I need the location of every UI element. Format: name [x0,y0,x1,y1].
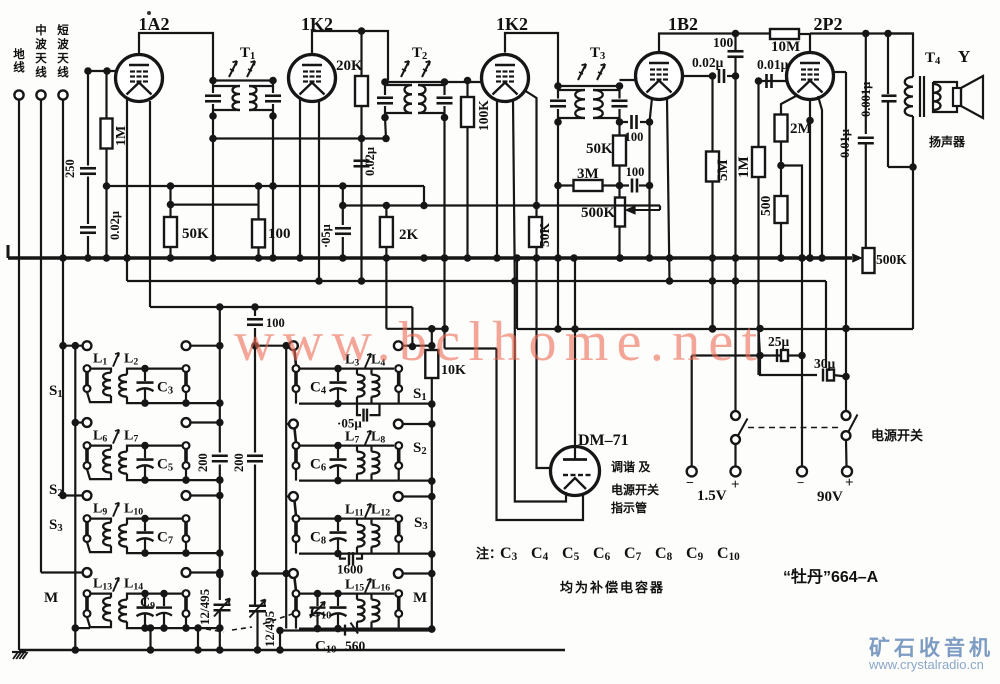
capacitor 200 no2 [247,453,263,465]
wire T2 left rail down [385,118,386,139]
wire DM71 left x536 [537,258,553,468]
link x150 bottom [149,628,151,650]
wire 3M line [558,184,629,186]
svg-text:指示管: 指示管 [611,500,647,515]
bus node x517 [513,254,521,262]
link x280 bottom [279,631,281,651]
node x760 y355 [756,352,764,360]
wire DM feed y348.5 [445,347,497,349]
svg-text:−: − [686,476,694,491]
wire 500 to bus [780,223,782,258]
svg-text:500: 500 [758,196,773,217]
bus node x300 [296,254,304,262]
T2 left rail with cap [384,82,386,95]
wire unit bottom to rail b2 [399,403,432,405]
node C10 top [334,590,342,598]
resistor 100 first [257,220,259,259]
inductor L11 b2 [357,525,365,547]
wire cap to x735 [727,75,736,77]
T1 right rail with cap [272,81,274,94]
right block contact-post link row 3 [295,501,297,516]
inductor L10 [119,525,127,547]
right block contact-post link row 1 [295,350,297,365]
bus node x558 [554,254,562,262]
right block contact-post link row 2 [295,429,297,443]
svg-text:0.02μ: 0.02μ [108,211,122,240]
capacitor C9 extra trimmer [163,594,165,607]
right block contact row 3 left circle [289,492,298,501]
node C5 top [141,442,149,450]
wire branch x802 [781,166,802,467]
svg-text:+: + [731,477,740,493]
node T1 right bottom [269,112,277,120]
wire unit bottom to rail b2 [399,480,432,482]
bus node x781 [777,254,785,262]
wire line A y186 [107,185,425,187]
wire bottom b2 [299,480,399,482]
bus node x63 [59,254,67,262]
wire V2 plate top [312,31,388,81]
adjust arrow L3 b2 [365,354,371,368]
inductor L12 b2 [372,525,380,547]
svg-text:短: 短 [57,23,69,37]
svg-text:100: 100 [713,35,734,50]
tube V6 DM-71 [551,447,600,496]
wire V3 plate top [505,33,558,86]
svg-text:1.5V: 1.5V [697,488,727,504]
resistor 100K [466,81,468,259]
terminal 1.5V minus [687,466,697,476]
bus node x273 [269,254,277,262]
left block contact row 2 right circle [182,418,191,427]
node 100K top [464,77,472,85]
node C6 top [334,442,342,450]
wire V1 grid left [88,70,116,72]
wire unit bottom to rail b2 [399,552,432,554]
adjust arrow T3 right [597,64,605,80]
adjust arrow L1 [113,353,119,367]
bus node x386.4 [383,254,391,262]
wire top C6 [299,445,394,447]
node T1 left bottom [209,112,217,120]
node 2K top [383,202,391,210]
svg-text:天: 天 [57,52,69,65]
wire DM71 wrap x496 [497,349,584,521]
T2 secondary coil [418,85,426,113]
svg-text:地: 地 [13,47,25,61]
switch S-power-2 [842,411,851,420]
svg-text:500K: 500K [581,205,616,221]
node unit bottom right [182,476,190,484]
svg-text:5M: 5M [715,159,731,181]
svg-text:www.crystalradio.cn: www.crystalradio.cn [868,657,984,672]
wire L14 frame [127,594,183,600]
inductor L1 [103,373,111,396]
node x802 y355 [798,352,806,360]
wire ground terminal down [18,100,20,650]
bus node x424 [420,254,428,262]
adjust arrow L9 [113,503,119,517]
wire 10M to 2P2 [799,33,810,35]
node x213 y138 [209,135,217,143]
resistor 50K third [618,122,620,186]
wire V4 plate top [659,34,770,53]
svg-text:1A2: 1A2 [139,14,170,34]
wire T2 primary taps [385,84,412,86]
svg-text:1M: 1M [736,156,752,178]
node x845 y376 [842,373,850,381]
speaker [953,88,961,106]
coil unit L1/L2 primary post [84,365,91,372]
bus node x574 [570,254,578,262]
wire x219 cap to bottom [219,611,221,650]
node C9 bottom [141,624,149,632]
svg-text:100: 100 [626,165,645,179]
T4 secondary [933,82,957,112]
node x781 y165 [777,162,785,170]
svg-text:100: 100 [625,130,644,144]
node 20K bottom [358,135,366,143]
node x649 y122 [646,118,654,126]
bus node x467.5 [464,254,472,262]
switch S-power-1 [731,411,740,420]
capacitor C4 [337,369,339,382]
bus node x170.5 [167,254,175,262]
terminal 90V minus [797,466,807,476]
wire L6 bottom [87,469,111,479]
bus arrow into 500K [853,255,861,262]
svg-text:2K: 2K [399,227,419,243]
svg-text:0.02μ: 0.02μ [692,55,724,70]
node y329 x845 [842,325,850,333]
adjust arrow L15 b2 [365,579,371,593]
adjust arrow T3 left [578,64,586,80]
resistor R1 1M [105,71,107,258]
inductor L14 [119,600,127,622]
svg-text:·05μ: ·05μ [319,224,333,248]
capacitor T3 right [612,99,628,102]
node x735 y76 [732,72,740,80]
node C8 bottom [334,550,342,558]
wire top C4 [299,368,394,370]
svg-text:100: 100 [268,226,291,242]
wire L1 top [90,369,111,373]
svg-text:线: 线 [57,65,69,79]
node C7 top [141,515,149,523]
wire unit bottom to rail [186,627,220,629]
adjust arrow T1 left [229,61,237,77]
wire x255 cap to bottom [256,612,258,650]
node unit bottom right [182,399,190,407]
svg-text:−: − [797,475,804,490]
adjust arrow T2 right [422,61,430,77]
svg-text:0.001μ: 0.001μ [859,82,873,117]
wire 100 cap link y122 [620,121,650,123]
node C5 bottom [141,476,149,484]
wire L11 frame b2 [356,519,358,525]
capacitor 0.02u (V2) [354,158,370,170]
right post b2 [395,442,402,449]
svg-text:天: 天 [35,52,47,65]
ground symbol [13,652,18,659]
wire T1 secondary top [249,85,273,87]
wire lineA drop x424 [423,186,425,206]
svg-text:0.01μ: 0.01μ [757,57,789,72]
terminal 1.5V plus [731,466,741,476]
svg-text:调谐 及: 调谐 及 [611,459,651,474]
adjust arrow L7 b2 [365,431,371,445]
svg-text:电源开关: 电源开关 [871,428,923,443]
node x669 y281 [666,277,674,285]
capacitor T3 left [550,99,566,102]
right post L14 [183,590,190,597]
wire L10 frame [127,519,183,525]
wire L9 bottom [87,542,111,552]
T4 primary coil [905,77,913,116]
capacitor C3 [144,369,146,382]
wire V4 grid left [620,79,637,81]
node T2 left bottom [381,114,389,122]
inductor L9 [103,523,111,546]
svg-text:1B2: 1B2 [668,14,698,34]
T3 right rail with cap [618,86,620,99]
main bus line [8,256,852,259]
wire L2 frame [127,369,183,375]
svg-text:电源开关: 电源开关 [611,482,659,497]
wire V5 right pin to switch feeder [832,71,846,73]
wire 0.01u line y81 [759,80,787,82]
bus node x106.5 [103,254,111,262]
node unit bottom right [182,549,190,557]
bus node x669.5 [666,254,674,262]
inductor L7 b2 [357,452,365,474]
wire SW antenna down to coil block [62,100,64,496]
svg-text:560: 560 [345,639,366,654]
node lineA x273 dup [269,182,277,190]
bus node x497 [493,254,501,262]
capacitor 0.02u V4 [718,69,721,83]
wire V4 pin down x649 [650,98,653,122]
svg-text:12/495: 12/495 [262,610,277,647]
svg-text:2P2: 2P2 [814,14,843,34]
inductor L7 [119,452,127,474]
dashed switch link [748,427,842,429]
inductor L15 b2 [357,600,365,622]
T4 core lines [919,76,921,117]
svg-text:100K: 100K [476,100,491,131]
wire V5 pin x822 [818,96,822,258]
left block contact row 4 left circle [83,568,92,577]
wire line y281 [127,280,826,282]
resistor 5M [711,76,713,329]
bus node x712.5 [709,254,717,262]
wire x845 vertical [845,72,847,411]
node y329 x558 [554,325,562,333]
svg-text:扬声器: 扬声器 [929,134,966,149]
bus node x810 [806,254,814,262]
node x691 y355 [691,356,693,467]
wire unit bottom to rail [186,552,220,554]
resistor 50K first [169,205,171,258]
wire T4 primary top [888,34,913,78]
wire line y307 [150,306,412,308]
tube V3 1K2 [482,55,529,102]
wire L1 bottom [87,392,111,402]
svg-text:25μ: 25μ [768,334,790,349]
capacitor 100 (T3) [628,115,640,129]
wire 50K-100 link y204.6 [171,204,259,206]
wire V3 pin down x497 [496,101,498,258]
capacitor 100 midleft [247,316,263,328]
left block contact row 1 right circle [182,341,191,350]
T1 left rail with cap [212,81,214,94]
capacitor .05u bridge [357,404,380,416]
stub 100 top [257,205,259,220]
right block contact row 2 right circle [394,420,403,429]
adjust arrow T1 right [247,61,255,77]
adjust arrow L6 [113,430,119,444]
node C10 bottom [334,625,342,633]
resistor 20K [360,31,362,139]
capacitor T1 left [205,94,221,97]
wire L6 top [90,446,111,450]
capacitor C10 tuning extra [316,594,318,607]
node T3 right bottom [616,118,624,126]
wire 25u line y355 [692,354,802,356]
svg-text:+: + [845,475,854,491]
wire x760 segment [759,329,761,356]
node lineB x424 [420,202,428,210]
capacitor 0.02u (antenna) [80,224,96,236]
pot wiper arrow [659,206,661,211]
bus node x213 [209,254,217,262]
wire V3 pin down x514 [513,100,515,281]
node C4 bottom [334,400,342,408]
wire T3 secondary taps [593,89,620,91]
right block contact row 2 left circle [289,420,298,429]
svg-text:12/495: 12/495 [197,588,212,625]
tube V4 1B2 [636,53,683,100]
tube V1 1A2 [116,55,163,102]
T1 primary coil [233,86,241,110]
capacitor 0.01u (V5) [858,136,874,139]
wire T1 left rail down [212,116,214,258]
wire V4 right pin [683,75,713,77]
gang cap 12/495 no2 [249,604,266,607]
svg-text:DM–71: DM–71 [578,432,629,449]
svg-text:中: 中 [35,23,47,37]
capacitor 0.001u [887,34,889,95]
svg-text:波: 波 [57,37,69,51]
left block contact row 3 left circle [83,491,92,500]
riser 50K top [169,186,171,205]
wire top C8 [299,517,394,519]
right post b2 [395,365,402,372]
right post b2 [395,515,402,522]
capacitor C8 [337,519,339,532]
gang cap 12/495 no1 [214,603,231,606]
capacitor 25u [776,349,778,362]
capacitor 200 no1 [212,453,228,465]
resistor 10M horizontal [770,29,799,39]
wire V1 pin down x127 [126,98,128,281]
right post L2 [183,365,190,372]
wire line B y205.5 [343,204,660,206]
node 3M left [554,182,562,190]
bus node x802 [798,254,806,262]
bus node x127 [123,254,131,262]
wire x649 down [648,122,650,258]
wire T4 primary down [912,116,914,329]
node 100 cap top [732,30,740,38]
wire y138 link [213,137,386,139]
resistor 1M second [757,81,759,375]
svg-text:M: M [413,590,427,606]
T2 top rail [385,81,482,83]
svg-text:线: 线 [35,65,47,79]
node x712 y76 [709,72,717,80]
bus node x620 [616,254,624,262]
left block contact row 1 left circle [83,341,92,350]
capacitor 0.01u V4 [765,74,768,88]
T3 top rail [558,85,620,87]
left post L7 block2 [293,442,300,449]
node unit bottom right [182,624,190,632]
wire 20K col to AVC [360,139,362,282]
svg-text:200: 200 [232,453,246,472]
wire top C10 [299,592,394,594]
wire bottom b2 [299,403,399,405]
capacitor C7 [144,519,146,532]
bus node x342.8 [339,254,347,262]
svg-text:50K: 50K [586,141,613,157]
right block contact-post link row 4 [295,578,297,591]
node T2 right bottom [441,114,449,122]
node pot bottom bus [616,254,624,262]
inductor L8 b2 [372,452,380,474]
svg-text:50K: 50K [537,223,552,248]
wire top line right [810,32,913,34]
resistor 2M [781,96,796,115]
resistor 2K [385,206,387,329]
tube V5 2P2 [787,53,834,100]
svg-text:线: 线 [13,60,25,74]
wire rail x431 [431,329,433,631]
T1 secondary coil [249,86,257,110]
wire feed x219 corner [219,307,221,600]
node C3 bottom [141,399,149,407]
right block contact row 3 right circle [394,492,403,501]
bus node x735.5 [732,254,740,262]
wire T2 right rail down [443,118,445,259]
svg-text:10M: 10M [771,39,800,55]
svg-text:www.bclhome.net: www.bclhome.net [234,311,765,373]
node T1 right on lineA [269,182,277,190]
wire 30u line y375 [760,356,817,376]
node y281 x514 dup [511,277,519,285]
node x386 y138 [382,135,390,143]
node x865 y33 [862,30,870,38]
bus node x88 [84,254,92,262]
node 20K top [358,27,366,35]
adjust arrow L13 [113,578,119,592]
svg-text:“牡丹”664–A: “牡丹”664–A [783,567,879,586]
resistor 500 [775,196,788,223]
inductor L3 b2 [357,375,365,397]
right post L7 [183,442,190,449]
bus node x444.5 [441,254,449,262]
svg-text:1600: 1600 [337,562,363,577]
